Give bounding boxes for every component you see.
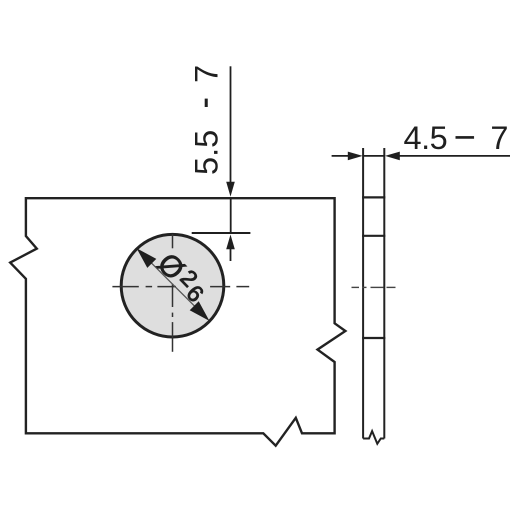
side view cup bottom edge <box>362 337 385 339</box>
svg-text:4.5 – 7: 4.5 – 7 <box>404 117 508 156</box>
dimension 4.5-7 right arrow <box>385 152 400 161</box>
dimension 5.5-7 arrowhead up with tail <box>226 235 235 250</box>
side view centerline <box>352 286 396 288</box>
dimension 5.5-7 arrowhead down <box>226 182 235 197</box>
svg-text:5.5 - 7: 5.5 - 7 <box>186 65 225 175</box>
hole Ø26 circle <box>121 234 224 337</box>
side view panel left edge <box>362 148 364 439</box>
dimension 5.5-7 through segment <box>230 198 232 234</box>
dimension 4.5-7 middle segment <box>363 155 385 157</box>
hole horizontal centerline <box>112 286 249 288</box>
diameter arrowhead upper-left <box>137 248 157 268</box>
diameter leader line <box>140 251 207 318</box>
hole vertical centerline <box>172 234 174 352</box>
side view cup top edge <box>362 235 385 237</box>
label Ø26 <box>151 247 209 307</box>
diameter arrowhead lower-right <box>190 301 210 321</box>
side view top edge <box>362 196 385 198</box>
dimension 5.5-7 line <box>230 66 232 183</box>
side view bottom break zigzag <box>363 431 384 444</box>
dimension 4.5-7 left arrow <box>332 155 349 157</box>
panel front view outline with break zigzags <box>10 198 345 446</box>
extension line at hole top <box>192 232 251 234</box>
side view panel right edge <box>383 148 385 439</box>
